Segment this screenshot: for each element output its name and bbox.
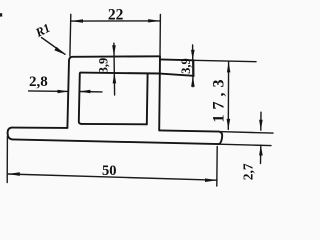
- svg-text:17,3: 17,3: [211, 74, 228, 122]
- svg-text:22: 22: [108, 7, 124, 24]
- svg-text:2,7: 2,7: [240, 163, 255, 180]
- svg-text:2,8: 2,8: [29, 74, 48, 90]
- svg-text:R1: R1: [32, 21, 52, 41]
- svg-text:3,9: 3,9: [179, 58, 193, 74]
- svg-text:50: 50: [102, 163, 117, 179]
- svg-text:3,9: 3,9: [97, 58, 111, 74]
